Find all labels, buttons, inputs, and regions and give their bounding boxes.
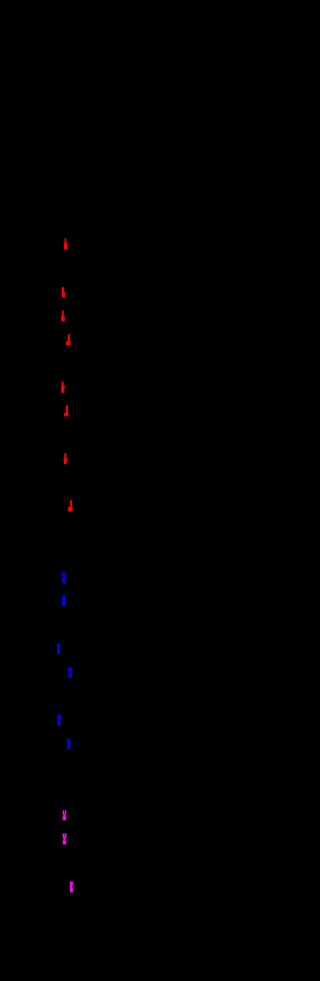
notch on N3 xyxy=(58,648,61,650)
oxygen atom O3 with bond stub xyxy=(61,311,65,322)
nitrogen atom N3 with bond stubs xyxy=(57,643,60,654)
oxygen atom O4 with bond stub xyxy=(66,334,71,345)
phosphorus atom P1 with bond stubs xyxy=(63,810,67,820)
nitrogen atom N4 with bond stubs xyxy=(68,667,71,678)
notch on P3 xyxy=(71,885,74,888)
oxygen atom O8 with bond stub xyxy=(68,500,73,511)
nitrogen atom N6 with bond stubs xyxy=(67,739,70,750)
nitrogen atom N2 with bond stubs xyxy=(62,595,66,606)
oxygen atom O7 with bond stub xyxy=(64,453,67,464)
oxygen atom O6 with bond stub xyxy=(64,405,68,416)
nitrogen atom N5 with bond stubs xyxy=(57,714,60,725)
oxygen atom O2 with bond stub xyxy=(62,287,65,297)
oxygen atom O5 with bond stub xyxy=(61,382,65,393)
nitrogen atom N1 with bond stubs xyxy=(62,571,66,583)
phosphorus atom P3 with bond stubs xyxy=(70,882,73,893)
oxygen atom O1 with bond stub xyxy=(64,239,67,250)
notch on N6 xyxy=(69,743,72,744)
phosphorus atom P2 with bond stubs xyxy=(63,833,67,844)
notch on N4 xyxy=(67,672,70,674)
